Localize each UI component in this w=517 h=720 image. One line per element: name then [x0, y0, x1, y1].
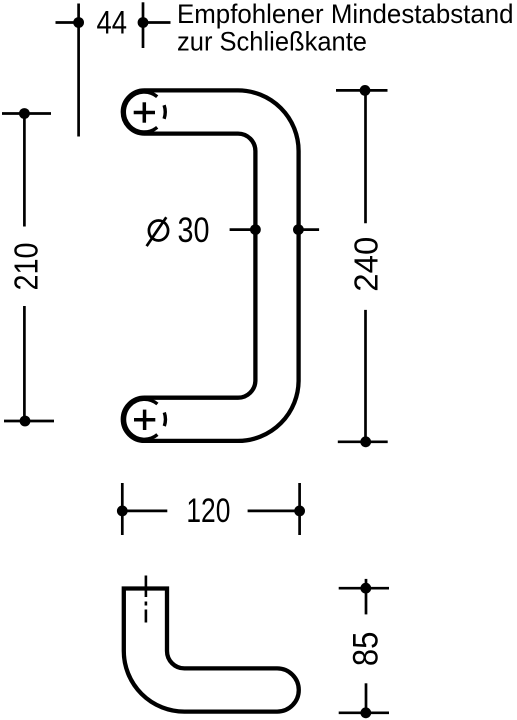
dimension 85 — [339, 579, 389, 713]
svg-text:30: 30 — [178, 211, 210, 250]
dimension dia 30 — [230, 228, 320, 231]
dimension 120 — [122, 483, 299, 535]
svg-text:120: 120 — [186, 492, 230, 530]
note text — [177, 0, 514, 57]
svg-text:zur Schließkante: zur Schließkante — [177, 27, 367, 57]
dimension 210 — [2, 114, 54, 422]
svg-text:85: 85 — [347, 632, 386, 667]
center line side view — [145, 576, 148, 623]
top fixing circle — [124, 92, 165, 132]
diameter symbol — [147, 217, 168, 246]
svg-text:Empfohlener Mindestabstand: Empfohlener Mindestabstand — [177, 0, 514, 29]
svg-text:210: 210 — [8, 243, 45, 291]
svg-text:240: 240 — [348, 237, 385, 292]
bottom fixing cross — [134, 410, 155, 430]
dimension 240 — [336, 90, 388, 441]
handle front view — [123, 90, 299, 441]
bottom fixing circle — [125, 399, 166, 439]
dimension 44 — [56, 2, 171, 136]
svg-text:44: 44 — [97, 4, 128, 40]
top fixing cross — [134, 102, 155, 122]
handle side view — [124, 589, 299, 712]
